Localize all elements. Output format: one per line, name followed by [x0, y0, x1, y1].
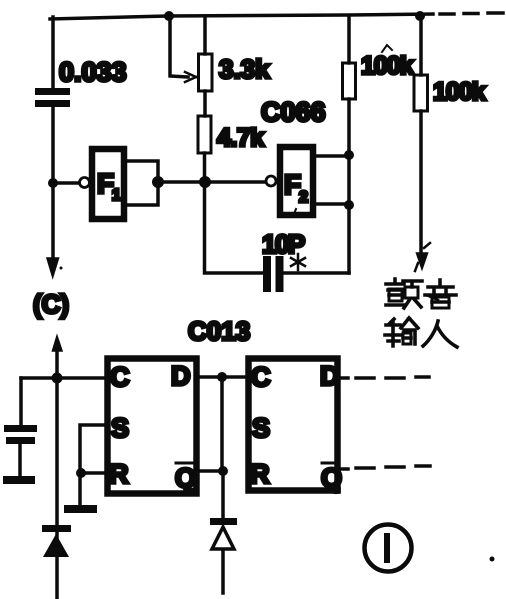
wire rail to resistor 100k (right): [419, 16, 423, 75]
svg-text:1: 1: [112, 187, 121, 204]
char 1 left: [386, 279, 404, 290]
capacitor bottom left: [4, 425, 37, 444]
node rail right tap: [415, 11, 425, 21]
svg-text:100k: 100k: [433, 78, 486, 106]
scan artifact apostrophe above chinese: [415, 263, 418, 271]
node A: [48, 178, 58, 188]
wire capacitor to ground: [18, 444, 22, 476]
svg-text:C: C: [251, 362, 271, 392]
wire S pin: [80, 425, 104, 505]
char 4: [423, 321, 457, 347]
figure number circle 1: [365, 525, 412, 572]
ground: [3, 476, 35, 484]
char 1 right: [403, 281, 422, 287]
svg-text:D: D: [320, 361, 340, 391]
wire node A to F1 input: [53, 181, 79, 185]
svg-text:4.7k: 4.7k: [217, 124, 264, 152]
stray mark: [490, 557, 495, 562]
diode D1: [42, 525, 71, 557]
resistor 100k right: [414, 75, 428, 111]
wire left bus with up arrow: [55, 345, 59, 599]
svg-text:Q: Q: [321, 463, 342, 493]
node D/Q feedback top: [217, 372, 227, 382]
scan artifact tick near F2: [293, 209, 296, 216]
node top rail wiper tap: [164, 11, 174, 21]
wire dashed rail continuation: [440, 13, 503, 14]
wire 10P to feedback line: [284, 271, 350, 275]
svg-text:C013: C013: [188, 316, 250, 346]
svg-text:(C): (C): [33, 289, 69, 319]
wire R pin: [80, 471, 104, 475]
char 2: [425, 280, 456, 295]
scan artifact dot near arrow: [60, 267, 63, 270]
wire rail to resistor 3.3k: [203, 16, 207, 54]
wire 4.7k to node B: [203, 153, 207, 182]
inverter F1: [92, 149, 124, 219]
wire 100k right down with arrow: [419, 111, 423, 258]
inverter F2: [280, 147, 313, 215]
resistor 4.7k: [198, 116, 211, 153]
label vibrato input (Chinese): [385, 279, 457, 347]
wire wiper tap: [170, 16, 188, 77]
svg-text:C: C: [110, 362, 130, 392]
inverter F1 input bubble: [80, 178, 90, 188]
node S/R junction: [76, 468, 86, 478]
svg-text:S: S: [111, 413, 129, 443]
wiper arrow into 3.3k: [185, 72, 196, 82]
char 3 right: [401, 318, 418, 330]
wire clock to flip-flop 1: [21, 376, 104, 380]
svg-text:100k: 100k: [361, 52, 414, 80]
wire 100k left down to feedback: [347, 99, 351, 273]
wire node A down with arrow: [51, 183, 55, 262]
wire diode D2 down: [221, 551, 225, 593]
resistor 100k left: [343, 63, 356, 99]
wire to bottom capacitor: [19, 378, 23, 425]
svg-text:D: D: [171, 361, 191, 391]
svg-text:0.033: 0.033: [59, 57, 127, 87]
svg-text:3.3k: 3.3k: [219, 54, 270, 84]
resistor 3.3k: [199, 54, 213, 91]
wire F2 output bottom: [316, 202, 345, 206]
wire capacitor to node A: [51, 107, 55, 183]
wire rail to resistor 100k (left): [347, 16, 351, 63]
node C clock: [52, 373, 63, 384]
svg-text:S: S: [252, 413, 270, 443]
svg-text:C066: C066: [261, 97, 326, 127]
scan artifact caret over 100k: [382, 45, 392, 52]
wire left drop to capacitor: [51, 17, 55, 88]
IC C013 flip-flop 2: [249, 359, 338, 491]
svg-text:R: R: [109, 459, 129, 489]
svg-text:Q: Q: [175, 463, 196, 493]
wire F1 output to node B: [158, 180, 205, 184]
wire F1 output bracket: [127, 161, 158, 205]
char 3 left: [385, 319, 401, 346]
svg-text:R: R: [250, 459, 270, 489]
node B junction: [199, 176, 211, 188]
node Qbar: [218, 466, 228, 476]
scan artifact dash below right 100k: [426, 295, 438, 300]
wire 3.3k to 4.7k: [203, 91, 207, 116]
capacitor 0.033: [35, 88, 70, 107]
node F2 out bottom: [344, 200, 354, 210]
ground S/R: [64, 505, 97, 513]
wire D2 output dashed: [341, 377, 429, 378]
node F1 output: [152, 176, 164, 188]
node F2 out top: [344, 150, 354, 160]
asterisk mark: [291, 254, 305, 270]
wire F2 output top: [316, 154, 345, 158]
wire top supply rail: [50, 14, 433, 19]
svg-text:2: 2: [299, 189, 308, 206]
wire Qbar down to diode: [221, 471, 225, 519]
inverter F2 input bubble: [266, 176, 276, 186]
wire D pin to flip-flop 2: [200, 375, 245, 379]
IC C013 flip-flop 1: [108, 359, 197, 494]
wire node B down to 10P: [205, 182, 264, 273]
capacitor 10P: [263, 256, 284, 292]
wire Qbar pin: [200, 469, 223, 473]
diode D2: [210, 518, 237, 549]
wire node B to F2 input: [205, 180, 265, 184]
wire Qbar2 output dashed: [341, 466, 430, 469]
wire D to Qbar tie: [220, 377, 224, 471]
